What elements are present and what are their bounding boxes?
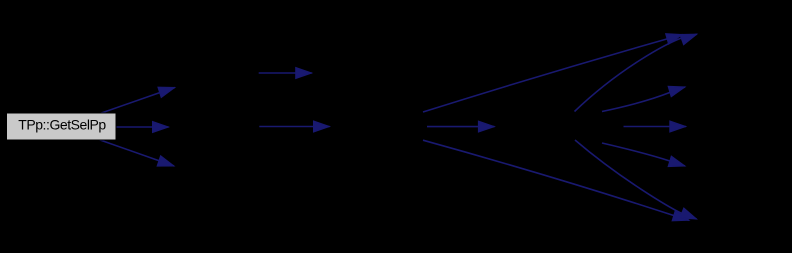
edge TPp::GetSelPp -> node2b (wire) (116, 122, 169, 133)
edge node4 -> node5c (wire) (624, 121, 686, 132)
edge TPp::GetSelPp -> node2c (wire) (98, 139, 174, 166)
edge node4 -> node5e (wire) (575, 140, 697, 219)
edge node3b -> node5a (wire) (423, 34, 683, 112)
edge node3b -> node5e (wire) (423, 140, 689, 221)
edge TPp::GetSelPp -> node2a (wire) (95, 87, 175, 115)
node TPp::GetSelPp (root box) (7, 113, 117, 140)
edge node2a -> node3a (wire) (259, 68, 312, 79)
svg-text:TPp::GetSelPp: TPp::GetSelPp (18, 117, 106, 133)
edge node3b -> node4 (wire) (427, 121, 494, 132)
edge node2b -> node3b (wire) (259, 121, 329, 132)
edge node4 -> node5d (wire) (602, 143, 685, 167)
edge node4 -> node5b (wire) (602, 86, 685, 111)
edge node4 -> node5a (wire) (575, 34, 697, 111)
